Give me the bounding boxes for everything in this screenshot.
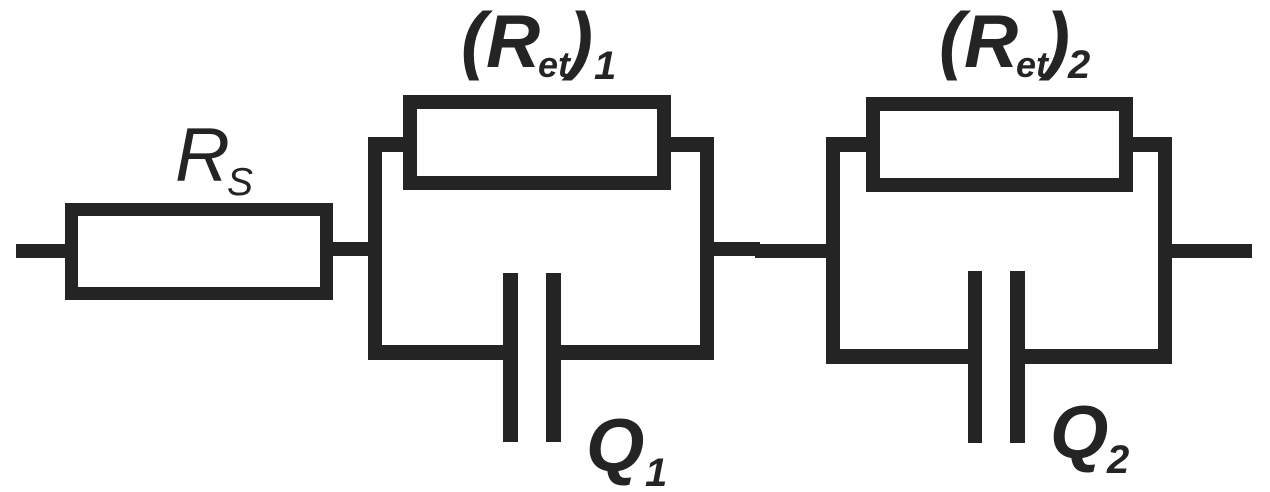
svg-text:et: et [538, 44, 572, 85]
svg-text:R: R [486, 0, 540, 83]
svg-text:R: R [964, 0, 1018, 83]
svg-text:1: 1 [594, 44, 616, 88]
svg-text:R: R [175, 113, 230, 198]
svg-text:Q: Q [1050, 390, 1108, 474]
svg-text:S: S [227, 161, 253, 204]
svg-text:2: 2 [1106, 438, 1129, 482]
svg-text:2: 2 [1067, 43, 1090, 87]
svg-text:Q: Q [586, 403, 644, 487]
svg-text:1: 1 [645, 451, 667, 492]
